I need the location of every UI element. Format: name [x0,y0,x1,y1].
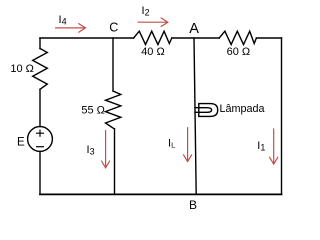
wire left middle segment [39,89,41,126]
svg-text:I4: I4 [59,14,67,27]
current arrow I2 [138,18,168,27]
svg-text:60 Ω: 60 Ω [227,46,251,58]
wire top-left C segment [40,37,134,39]
battery plus sign [37,130,44,136]
wire bottom [40,193,282,195]
wire C to 40ohm / A segment [172,37,219,39]
current arrow I1 [270,129,278,164]
current arrow I4 [56,24,86,33]
current arrow IL [184,128,192,162]
svg-text:B: B [189,198,197,212]
wire left bottom segment [39,151,41,194]
current arrow I3 [102,131,110,168]
svg-text:A: A [189,21,199,37]
svg-text:I3: I3 [87,144,95,157]
lamp bulb outline [199,104,218,117]
wire right side [281,38,283,194]
battery E circle [28,127,53,152]
resistor 60ohm zigzag [219,31,256,44]
wire 60ohm to right corner [256,37,281,39]
svg-text:E: E [17,136,25,148]
resistor 55ohm zigzag [106,91,121,129]
svg-text:55 Ω: 55 Ω [81,105,105,117]
svg-text:C: C [109,21,118,35]
svg-text:I1: I1 [257,140,265,153]
wire lamp branch A to B [194,38,196,194]
wire left top segment [39,38,41,49]
battery minus sign [37,146,44,148]
svg-text:40 Ω: 40 Ω [141,46,165,58]
wire middle branch bottom [114,129,116,195]
wire middle branch top [112,38,114,91]
svg-text:Lâmpada: Lâmpada [220,103,265,115]
lamp filament loop [195,108,212,113]
svg-text:I2: I2 [142,5,150,18]
resistor 10ohm zigzag [33,49,48,90]
resistor 40ohm zigzag [134,31,172,44]
svg-text:10 Ω: 10 Ω [10,63,34,75]
